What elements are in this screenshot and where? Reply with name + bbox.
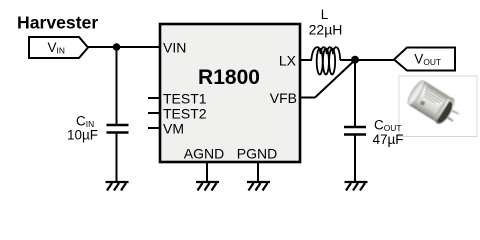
seal (dark base) xyxy=(434,99,455,124)
IC U1 R1800 body xyxy=(160,24,300,162)
wire inductor to VOUT flag xyxy=(340,59,394,61)
svg-text:VFB: VFB xyxy=(270,90,297,106)
capacitor COUT xyxy=(344,127,366,135)
logo mark xyxy=(420,101,425,106)
junction node LX/COUT xyxy=(351,56,359,64)
photo frame of COUT capacitor xyxy=(399,76,477,137)
svg-text:VIN: VIN xyxy=(163,39,186,55)
svg-text:PGND: PGND xyxy=(237,145,277,161)
wire LX to inductor xyxy=(300,59,312,61)
wire junction down to COUT xyxy=(354,60,356,127)
inductor L coil xyxy=(311,47,340,74)
svg-text:Harvester: Harvester xyxy=(17,13,98,33)
wire VFB diagonal to junction xyxy=(315,60,355,98)
pin TEST2 xyxy=(148,112,160,114)
svg-text:10µF: 10µF xyxy=(67,128,98,143)
capacitor photo drawing xyxy=(405,78,466,132)
crimp groove xyxy=(432,95,450,121)
svg-text:22µH: 22µH xyxy=(309,21,343,37)
label COUT 47uF xyxy=(373,118,404,148)
svg-text:TEST2: TEST2 xyxy=(163,105,207,121)
svg-text:AGND: AGND xyxy=(184,145,224,161)
pin TEST1 xyxy=(148,97,160,99)
capacitor CIN xyxy=(107,125,129,133)
printed text rows on body xyxy=(421,85,447,107)
wire VFB stub xyxy=(300,97,315,99)
ground (AGND) xyxy=(196,182,219,191)
svg-text:LX: LX xyxy=(279,52,297,68)
net flag VOUT xyxy=(394,48,455,71)
net flag VIN xyxy=(29,37,88,58)
pin 1 xyxy=(445,106,459,117)
wire PGND stub xyxy=(257,162,259,181)
pin 2 xyxy=(441,112,454,122)
svg-text:L: L xyxy=(321,7,329,22)
flange ring xyxy=(432,95,459,127)
ground (CIN) xyxy=(106,182,129,191)
junction node VIN/CIN xyxy=(113,43,121,51)
pin VM xyxy=(148,127,160,129)
svg-text:R1800: R1800 xyxy=(198,66,260,89)
ground (PGND) xyxy=(247,182,270,191)
wire COUT to ground xyxy=(354,135,356,182)
ground (COUT) xyxy=(345,182,368,191)
wire VIN flag to IC xyxy=(88,46,160,48)
wire junction down to CIN xyxy=(116,47,118,125)
top face (edge-on) xyxy=(405,79,427,107)
cylinder body xyxy=(409,81,451,122)
wire CIN to ground xyxy=(116,133,118,182)
label CIN 10uF xyxy=(67,114,98,143)
svg-text:VM: VM xyxy=(163,120,184,136)
wire AGND stub xyxy=(206,162,208,181)
svg-text:47µF: 47µF xyxy=(373,132,404,147)
svg-text:TEST1: TEST1 xyxy=(163,90,207,106)
